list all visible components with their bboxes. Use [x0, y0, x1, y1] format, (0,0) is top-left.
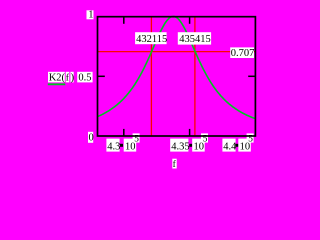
svg-text:4.35: 4.35 — [171, 141, 189, 152]
svg-text:4.3: 4.3 — [107, 141, 120, 152]
marker value label 432115 — [135, 32, 167, 45]
svg-text:K2(: K2( — [49, 72, 66, 83]
red vertical marker line at 435415 — [194, 17, 196, 135]
bottom tick at 4.3e5 — [123, 129, 125, 136]
svg-text:0: 0 — [89, 132, 94, 143]
y-axis expression K2(f) — [48, 72, 75, 84]
svg-text:435415: 435415 — [179, 34, 211, 45]
svg-text:432115: 432115 — [136, 34, 167, 45]
svg-text:4.4: 4.4 — [223, 141, 237, 152]
svg-text:0.5: 0.5 — [78, 72, 91, 83]
left tick at 0.5 — [98, 75, 105, 77]
y-axis top limit label 1 — [87, 10, 94, 21]
marker value label 435415 — [178, 32, 211, 45]
green trace-colour underline under K2( — [48, 83, 66, 85]
top tick at 4.35e5 — [189, 17, 191, 24]
right tick at 0.5 — [248, 75, 255, 77]
green trace: resonance curve K2(f) — [98, 16, 256, 118]
plot frame — [98, 17, 256, 136]
magenta background — [0, 0, 272, 170]
x tick label 4.4·10^5 — [222, 133, 253, 152]
svg-text:1: 1 — [88, 10, 93, 21]
0.707 level label — [230, 47, 254, 59]
svg-text:0.707: 0.707 — [231, 48, 255, 59]
bottom tick at 4.35e5 — [189, 129, 191, 136]
x tick label 4.35·10^5 — [170, 133, 208, 152]
svg-text:): ) — [71, 72, 75, 83]
x-axis title f — [172, 159, 176, 170]
red horizontal marker line (0.707 level) — [98, 51, 255, 53]
red vertical marker line at 432115 — [150, 17, 152, 135]
top tick at 4.3e5 — [123, 17, 125, 24]
y-axis bottom limit label 0 — [88, 132, 94, 144]
x tick label 4.3·10^5 — [106, 133, 139, 152]
y-axis middle tick label 0.5 — [77, 72, 92, 84]
